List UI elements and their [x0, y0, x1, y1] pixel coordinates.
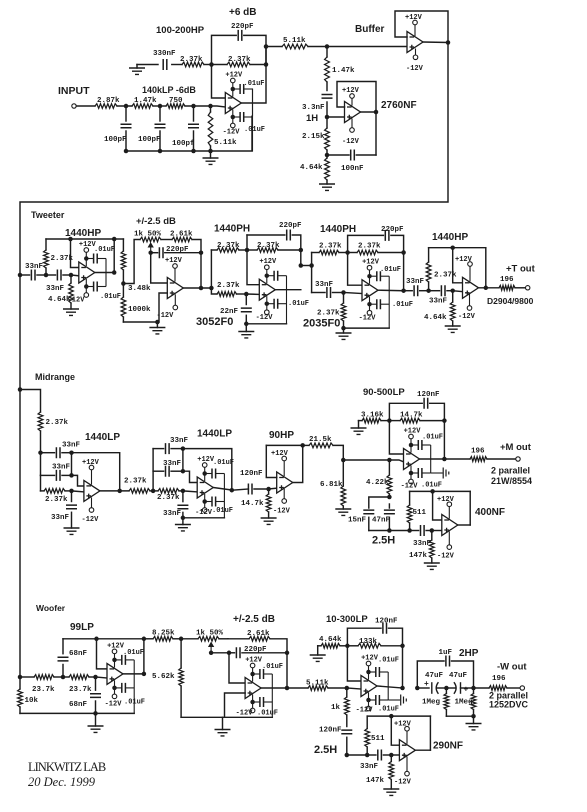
- label +/-2.5 dB: [136, 216, 176, 227]
- svg-text:196: 196: [500, 276, 514, 284]
- node: [230, 488, 235, 493]
- node: [112, 270, 117, 275]
- capacitor 120nF: [240, 470, 269, 495]
- svg-text:1k 50%: 1k 50%: [196, 630, 224, 638]
- wire (ground bus): [181, 716, 272, 718]
- label 3052F0: [196, 316, 233, 328]
- svg-text:1440PH: 1440PH: [214, 224, 250, 235]
- node: [18, 387, 23, 392]
- node: [151, 489, 156, 494]
- capacitor 330nF: [153, 50, 176, 70]
- pot wiper: [209, 643, 213, 653]
- +12V pin: [79, 241, 97, 266]
- label 2.5H: [372, 535, 395, 547]
- capacitor 1uF (2HP): [417, 649, 473, 688]
- node: [471, 714, 476, 719]
- svg-text:2760NF: 2760NF: [381, 100, 417, 111]
- -12V pin: [256, 296, 274, 322]
- ground: [319, 184, 335, 190]
- label INPUT: [58, 85, 90, 97]
- svg-text:+12V: +12V: [404, 428, 422, 436]
- svg-text:6.81k: 6.81k: [320, 481, 343, 489]
- label 1440HP: [432, 232, 468, 243]
- wire (gyrator top): [367, 715, 430, 717]
- +12V pin: [259, 258, 277, 283]
- node: [325, 153, 330, 158]
- output terminal -W: [520, 686, 524, 690]
- svg-text:47uF: 47uF: [425, 672, 444, 680]
- label 21W/8554: [491, 476, 532, 486]
- svg-text:120nF: 120nF: [417, 391, 440, 399]
- +12V pin: [197, 456, 215, 481]
- wire (output): [213, 488, 232, 491]
- wire (output): [458, 524, 470, 526]
- svg-text:220pF: 220pF: [231, 23, 254, 31]
- svg-text:+M out: +M out: [500, 442, 532, 453]
- capacitor 68nF: [58, 639, 88, 677]
- capacitor 15nF: [348, 510, 374, 530]
- svg-text:+6 dB: +6 dB: [229, 7, 257, 18]
- capacitor .01uF (V+ bypass): [84, 246, 115, 264]
- svg-text:68nF: 68nF: [69, 701, 88, 709]
- node: [387, 418, 392, 423]
- svg-text:100pF: 100pF: [104, 136, 127, 144]
- wire: [204, 64, 212, 66]
- wire (bypass rail): [133, 660, 135, 714]
- resistor 196: [470, 448, 516, 462]
- resistor 1k: [331, 688, 349, 727]
- svg-text:21.5k: 21.5k: [309, 436, 332, 444]
- +12V pin: [404, 428, 422, 453]
- +12V pin: [107, 642, 125, 667]
- op-amp A4 (1440PH): [362, 280, 378, 301]
- capacitor 220pF (feedback): [247, 222, 302, 250]
- capacitor 100nF: [327, 150, 376, 174]
- potentiometer 1k 50%: [134, 231, 162, 242]
- svg-text:5.11k: 5.11k: [283, 37, 306, 45]
- svg-text:2.37k: 2.37k: [46, 419, 69, 427]
- node: [415, 686, 420, 691]
- svg-text:2.37k: 2.37k: [319, 243, 342, 251]
- label 1440LP: [85, 432, 120, 443]
- wire: [232, 489, 249, 490]
- label LINKWITZ LAB: [28, 760, 106, 774]
- op-amp A2 (level): [167, 278, 183, 299]
- resistor 23.7k: [63, 675, 96, 694]
- ground (bypass): [388, 695, 406, 706]
- wire (output): [275, 289, 301, 291]
- svg-text:+12V: +12V: [437, 496, 455, 504]
- -12V pin: [406, 49, 424, 74]
- label 2760NF: [381, 100, 417, 111]
- svg-text:750: 750: [169, 97, 183, 105]
- svg-text:.01uF: .01uF: [213, 459, 234, 467]
- resistor 23.7k: [20, 675, 63, 694]
- ground: [63, 309, 79, 315]
- -12V pin: [342, 119, 360, 147]
- ground: [149, 322, 165, 334]
- svg-text:.01uF: .01uF: [422, 434, 443, 442]
- svg-text:1Meg: 1Meg: [455, 699, 474, 707]
- capacitor .01uF (V+ bypass): [367, 266, 401, 281]
- node: [69, 450, 74, 455]
- wire: [153, 105, 166, 107]
- resistor 2.37k (feedback): [426, 248, 457, 291]
- capacitor 120nF (feedback): [389, 391, 444, 421]
- svg-text:33nF: 33nF: [170, 437, 189, 445]
- label 2 parallel: [491, 466, 530, 476]
- node: [209, 62, 214, 67]
- node: [426, 288, 431, 293]
- node: [450, 245, 455, 250]
- wire (output): [361, 111, 377, 113]
- svg-text:2 parallel: 2 parallel: [491, 466, 530, 476]
- resistor 5.62k: [152, 639, 183, 718]
- wire (output): [184, 287, 212, 289]
- resistor 2.37k: [312, 243, 348, 255]
- resistor 2.37k (feedback): [44, 239, 74, 275]
- svg-text:-12V: -12V: [82, 516, 100, 524]
- svg-text:-12V: -12V: [256, 314, 274, 322]
- capacitor .01uF (V- bypass): [366, 695, 399, 714]
- op-amp A3 (1440PH): [259, 279, 275, 300]
- op-amp A11 (99LP): [107, 663, 123, 684]
- svg-text:INPUT: INPUT: [58, 85, 90, 97]
- svg-text:147k: 147k: [409, 552, 428, 560]
- wire (to inverting input): [97, 639, 108, 669]
- node: [112, 237, 117, 242]
- node: [142, 637, 147, 642]
- svg-text:47uF: 47uF: [449, 672, 468, 680]
- capacitor 47uF (+): [417, 672, 446, 694]
- svg-text:-W out: -W out: [497, 662, 527, 673]
- capacitor .01uF (V- bypass): [112, 683, 145, 707]
- label Buffer: [355, 24, 385, 35]
- ground: [445, 326, 461, 332]
- resistor 10k: [18, 677, 39, 713]
- capacitor 100pF: [138, 106, 166, 151]
- node: [191, 104, 196, 109]
- capacitor 33nF: [51, 491, 77, 528]
- svg-text:1k 50%: 1k 50%: [134, 231, 162, 239]
- resistor 5.11k: [208, 106, 237, 151]
- label 1252DVC: [489, 700, 529, 710]
- resistor 8.25k: [144, 630, 181, 642]
- node: [124, 149, 213, 154]
- op-amp A9 (400NF): [442, 515, 458, 536]
- op-amp U1 (140kLP): [225, 93, 241, 114]
- wire (to inverting input): [347, 646, 361, 681]
- capacitor .01uF (V+ bypass): [409, 434, 443, 451]
- svg-text:120nF: 120nF: [240, 470, 263, 478]
- svg-text:1440HP: 1440HP: [432, 232, 468, 243]
- op-amp U3 (2760NF): [345, 102, 361, 123]
- wire (bypass rail return): [183, 517, 225, 519]
- wire: [269, 487, 277, 490]
- label 2HP: [459, 648, 479, 659]
- svg-text:+12V: +12V: [405, 14, 423, 22]
- resistor 2.15k: [302, 117, 329, 155]
- svg-text:133k: 133k: [359, 638, 378, 646]
- svg-text:100nF: 100nF: [341, 165, 364, 173]
- label 90HP: [269, 430, 294, 441]
- wire (output): [479, 287, 500, 289]
- +12V pin: [437, 496, 455, 519]
- svg-text:-12V: -12V: [394, 779, 412, 787]
- capacitor 220pF (feedback): [348, 226, 404, 253]
- svg-text:-12V: -12V: [401, 483, 419, 491]
- resistor 2.37k: [180, 56, 204, 67]
- node: [345, 753, 350, 758]
- svg-text:+/-2.5 dB: +/-2.5 dB: [136, 216, 176, 227]
- svg-text:33nF: 33nF: [163, 510, 182, 518]
- svg-text:511: 511: [413, 509, 427, 517]
- ground (bypass): [431, 468, 449, 479]
- wire (output): [262, 687, 309, 689]
- svg-text:2.37k: 2.37k: [157, 494, 180, 502]
- label 2.5H: [314, 744, 337, 756]
- svg-text:5.62k: 5.62k: [152, 673, 175, 681]
- svg-text:-12V: -12V: [458, 313, 476, 321]
- +12V pin: [394, 721, 412, 744]
- svg-text:33nF: 33nF: [360, 763, 379, 771]
- capacitor .01uF (V- bypass): [84, 282, 121, 302]
- svg-text:33nF: 33nF: [25, 263, 44, 271]
- node: [69, 273, 74, 278]
- svg-text:2.37k: 2.37k: [217, 242, 240, 250]
- wire (feedback box): [337, 82, 376, 156]
- wire (bypass rail): [105, 259, 107, 287]
- svg-text:Buffer: Buffer: [355, 24, 385, 35]
- svg-text:400NF: 400NF: [475, 507, 505, 518]
- wire: [161, 239, 172, 241]
- ground: [238, 324, 254, 338]
- wire (to inverting input): [433, 491, 442, 520]
- svg-text:68nF: 68nF: [69, 650, 88, 658]
- svg-text:+12V: +12V: [225, 72, 243, 80]
- wire (feedback top): [46, 238, 114, 240]
- resistor 2.61k: [170, 231, 201, 289]
- resistor 2.37k: [153, 489, 183, 503]
- svg-text:3.3nF: 3.3nF: [302, 104, 325, 112]
- ground: [203, 151, 219, 164]
- +12V pin: [165, 257, 183, 282]
- node: [209, 286, 214, 291]
- resistor 1Meg: [455, 688, 476, 716]
- capacitor 47uF (+): [446, 672, 473, 695]
- resistor 3.16k: [359, 412, 390, 424]
- capacitor 120nF (feedback): [347, 618, 402, 646]
- capacitor .01uF (V+ bypass): [231, 80, 265, 94]
- resistor 511: [407, 491, 426, 530]
- capacitor 47nF: [372, 504, 395, 531]
- resistor 2.37k (feedback): [247, 242, 301, 252]
- capacitor 100pF: [172, 106, 199, 151]
- label +T out: [506, 264, 536, 275]
- node: [94, 637, 99, 642]
- wire (output): [378, 289, 404, 292]
- +12V pin: [245, 657, 263, 682]
- svg-text:2.37k: 2.37k: [257, 242, 280, 250]
- capacitor 68nF: [69, 677, 101, 713]
- node: [264, 62, 269, 67]
- svg-text:2035F0: 2035F0: [303, 318, 340, 330]
- wire (bypass rail return): [246, 323, 286, 325]
- svg-text:-12V: -12V: [437, 553, 455, 561]
- wire (+ input to ground): [123, 293, 167, 322]
- svg-text:2.37k: 2.37k: [228, 56, 251, 64]
- node: [389, 714, 394, 719]
- wire (to inverting input): [72, 475, 84, 486]
- svg-text:+12V: +12V: [361, 655, 379, 663]
- svg-text:3052F0: 3052F0: [196, 316, 233, 328]
- svg-text:1Meg: 1Meg: [422, 699, 441, 707]
- capacitor 22nF: [220, 294, 252, 324]
- svg-text:+12V: +12V: [165, 257, 183, 265]
- node: [430, 528, 435, 533]
- wire (bypass rail): [271, 674, 273, 717]
- svg-text:.01uF: .01uF: [378, 657, 399, 665]
- node: [69, 473, 74, 478]
- wire (output): [123, 639, 144, 674]
- wire: [432, 530, 442, 532]
- svg-text:.01uF: .01uF: [421, 482, 442, 490]
- wire (bypass rail return): [344, 327, 390, 329]
- node: [442, 418, 447, 423]
- resistor 2.37k (feedback): [212, 56, 267, 67]
- svg-text:4.22k: 4.22k: [366, 479, 389, 487]
- svg-text:511: 511: [371, 735, 385, 743]
- svg-text:+12V: +12V: [394, 721, 412, 729]
- svg-text:15nF: 15nF: [348, 517, 367, 525]
- label 1440LP: [197, 429, 232, 440]
- resistor 147k: [366, 755, 394, 789]
- node: [179, 637, 184, 642]
- svg-text:2.37k: 2.37k: [217, 282, 240, 290]
- wire (to inverting input): [229, 653, 245, 683]
- resistor 133k (feedback): [347, 638, 402, 648]
- node: [148, 250, 153, 255]
- svg-text:2.61k: 2.61k: [247, 630, 270, 638]
- svg-text:120nF: 120nF: [319, 727, 342, 735]
- wire: [182, 449, 184, 472]
- input terminal: [72, 104, 76, 108]
- svg-text:2.37k: 2.37k: [358, 243, 381, 251]
- -12V pin: [105, 680, 123, 708]
- capacitor 33nF: [153, 437, 188, 454]
- svg-text:196: 196: [492, 675, 506, 683]
- svg-text:33nF: 33nF: [163, 460, 182, 468]
- -12V pin: [82, 498, 100, 525]
- -12V pin: [437, 531, 455, 560]
- ground: [215, 717, 231, 736]
- node: [401, 250, 406, 255]
- svg-text:1k: 1k: [331, 704, 341, 712]
- label Woofer: [36, 603, 66, 613]
- node: [442, 457, 447, 462]
- resistor 750: [166, 97, 185, 108]
- capacitor .01uF (V- bypass): [202, 497, 233, 516]
- op-amp A13 (10-300LP): [361, 676, 377, 697]
- ground: [261, 518, 277, 524]
- resistor 2.37k (feedback): [348, 243, 404, 255]
- node: [38, 450, 43, 455]
- svg-text:33nF: 33nF: [52, 464, 71, 472]
- node: [285, 686, 290, 691]
- svg-text:.01uF: .01uF: [288, 300, 309, 308]
- capacitor .01uF (V- bypass): [250, 697, 278, 718]
- svg-text:290NF: 290NF: [433, 741, 463, 752]
- node: [44, 273, 49, 278]
- node: [345, 686, 350, 691]
- wire: [286, 653, 288, 688]
- label 1440HP: [65, 228, 101, 239]
- resistor 2.37k: [317, 293, 346, 329]
- node: [158, 104, 163, 109]
- svg-text:1.47k: 1.47k: [332, 67, 355, 75]
- node: [181, 446, 186, 451]
- wire: [76, 105, 95, 107]
- svg-text:.01uF: .01uF: [257, 710, 278, 718]
- +12V pin: [82, 459, 100, 485]
- label 10-300LP: [326, 614, 368, 625]
- svg-text:.01uF: .01uF: [94, 246, 115, 254]
- ground: [175, 518, 191, 531]
- wire (notch caps top): [369, 497, 390, 508]
- capacitor 100pF: [104, 106, 132, 151]
- capacitor .01uF (V- bypass): [231, 112, 265, 134]
- wire: [344, 293, 363, 294]
- wire: [40, 475, 42, 491]
- svg-text:.01uF: .01uF: [262, 663, 283, 671]
- svg-text:1uF: 1uF: [439, 649, 453, 657]
- wire: [20, 390, 41, 413]
- svg-text:220pF: 220pF: [166, 246, 189, 254]
- node: [300, 443, 305, 448]
- wire (ground bus): [126, 116, 252, 151]
- node: [199, 286, 204, 291]
- wire: [185, 106, 225, 107]
- node: [471, 686, 476, 691]
- svg-text:+12V: +12V: [82, 459, 100, 467]
- node: [446, 40, 451, 45]
- node: [181, 469, 186, 474]
- node: [387, 495, 392, 500]
- resistor 196: [499, 276, 525, 290]
- svg-text:220pF: 220pF: [279, 222, 302, 230]
- svg-text:120nF: 120nF: [375, 618, 398, 626]
- node: [401, 288, 406, 293]
- wire: [96, 677, 108, 678]
- label Tweeter: [31, 210, 65, 220]
- svg-text:147k: 147k: [366, 777, 385, 785]
- svg-text:5.11k: 5.11k: [214, 139, 237, 147]
- svg-text:2.37k: 2.37k: [45, 496, 68, 504]
- -12V pin: [68, 279, 89, 305]
- op-amp U2 (buffer): [407, 32, 423, 53]
- wire (to + input): [327, 116, 345, 118]
- ground: [466, 716, 482, 730]
- svg-text:10k: 10k: [25, 697, 39, 705]
- svg-text:3.48k: 3.48k: [128, 285, 151, 293]
- resistor 3.48k: [121, 239, 151, 293]
- node: [124, 104, 129, 109]
- +12V pin: [361, 655, 379, 680]
- wire: [391, 754, 399, 756]
- svg-text:D2904/9800: D2904/9800: [487, 296, 534, 306]
- capacitor 33nF: [41, 442, 81, 459]
- label 140kLP -6dB: [142, 85, 196, 95]
